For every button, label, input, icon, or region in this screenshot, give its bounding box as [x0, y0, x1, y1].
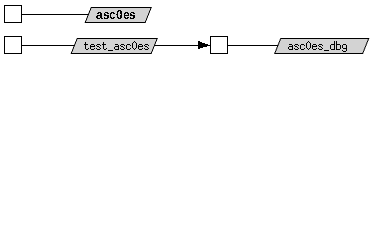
node box2 (row 2 source square) [5, 37, 22, 54]
node test_asc0es (parallelogram) [71, 39, 157, 54]
arrowhead into box3 [198, 41, 210, 49]
node box3 (row 2 middle square) [211, 37, 228, 54]
label asc0es_dbg (pixel text) [288, 41, 347, 52]
wire row2 segment: box3 to asc0es_dbg [228, 45, 278, 46]
node asc0es_dbg (parallelogram) [275, 39, 369, 54]
node asc0es (parallelogram) [85, 8, 151, 23]
node box1 (row 1 source square) [5, 6, 22, 23]
wire row2 segment: box2 to test_asc0es [22, 45, 75, 46]
label asc0es (bold pixel text) [96, 10, 135, 19]
wire row2 segment: test_asc0es to arrow [154, 45, 198, 46]
wire row1: box1 to asc0es [22, 14, 89, 15]
label test_asc0es (pixel text) [84, 41, 149, 51]
